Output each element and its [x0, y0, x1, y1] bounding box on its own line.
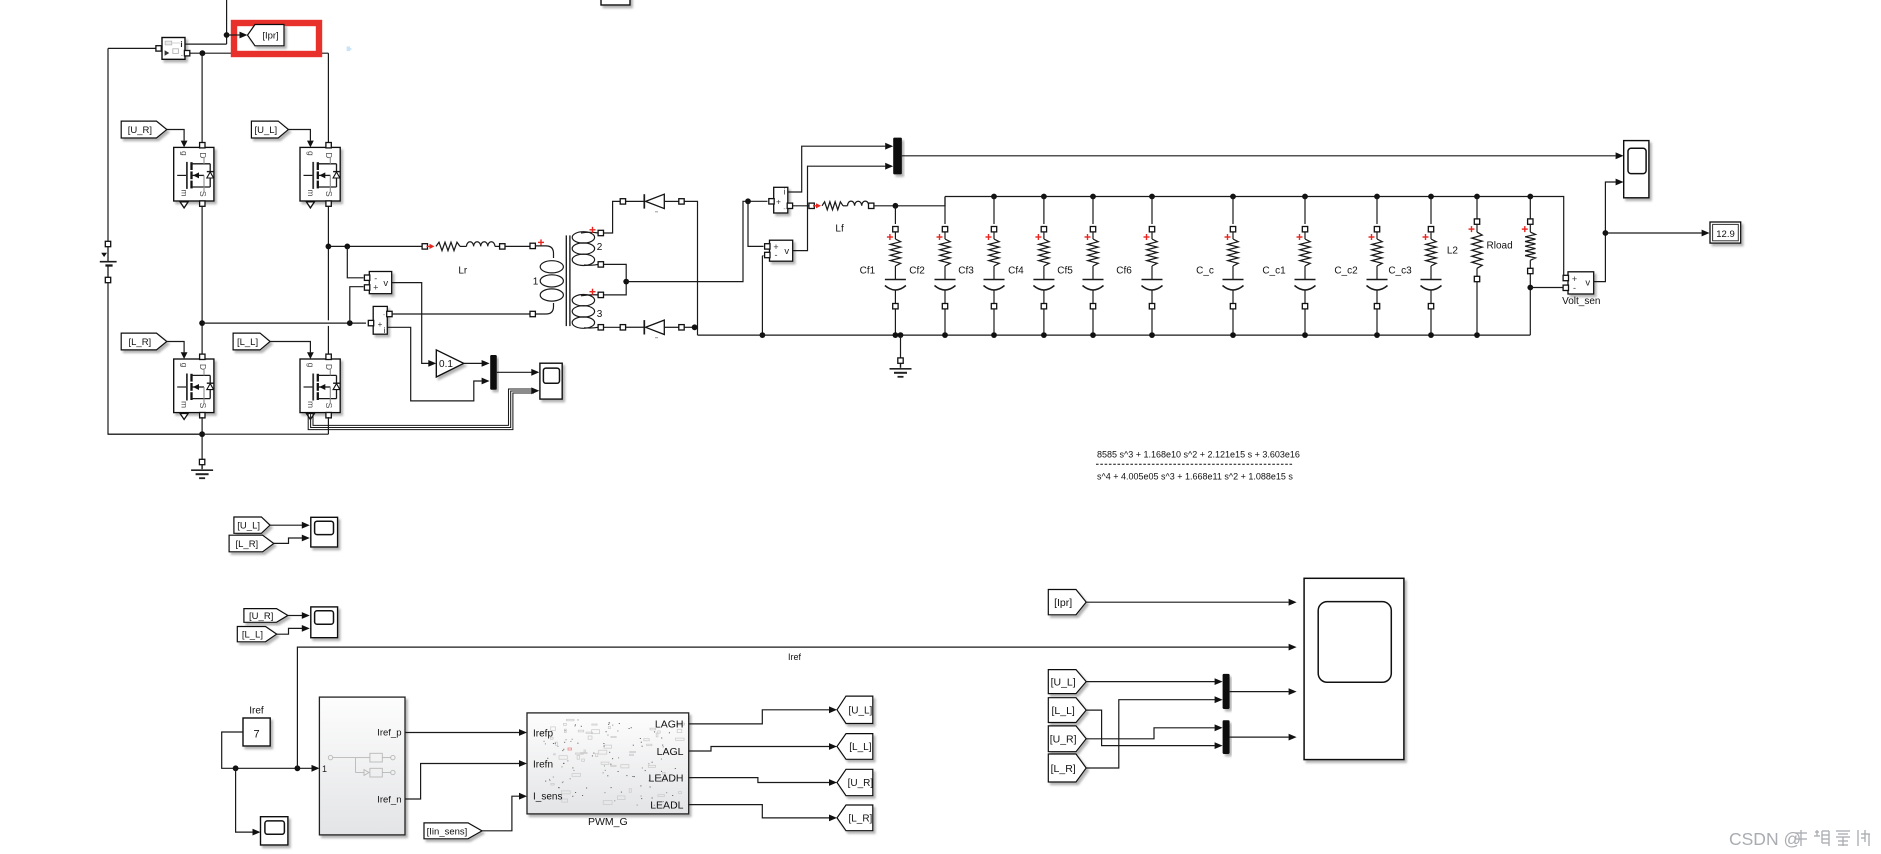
MOSFET U_L — [300, 141, 340, 208]
wire Cf4 to bus — [1043, 309, 1045, 335]
wire LAGH — [689, 710, 830, 724]
wire L_R to scope — [274, 538, 302, 543]
svg-text:m: m — [306, 401, 316, 408]
inductor branch L2 — [1474, 219, 1479, 224]
capacitor branch Cf3 — [991, 227, 996, 232]
svg-text:v: v — [1585, 278, 1590, 289]
svg-text:g: g — [306, 363, 316, 368]
wire right leg upper (to U_L drain) — [327, 53, 329, 142]
svg-text:LAGH: LAGH — [655, 719, 684, 731]
wire LAGL — [689, 747, 830, 752]
wire into goto Ipr — [227, 34, 240, 36]
mux (bridge scope) — [490, 355, 497, 390]
wire L_L to mux2 — [1086, 710, 1215, 746]
capacitor branch C_c — [1230, 227, 1235, 232]
svg-text:0.1: 0.1 — [439, 359, 453, 370]
from tag [U_R] (scope pair 2) — [244, 609, 288, 623]
diode D2 — [620, 325, 625, 330]
junction Ipr node — [224, 32, 230, 38]
wire v signal to mux — [793, 166, 886, 250]
svg-text:v: v — [784, 246, 789, 257]
junction bottom bus C_c — [1230, 332, 1236, 338]
from tag [Ipr] (scope) — [1048, 590, 1086, 615]
junction Iref riser — [295, 765, 301, 771]
svg-text:S: S — [198, 403, 208, 409]
wire battery plus up to sensor — [107, 48, 109, 241]
capacitor branch Cf6 — [1149, 227, 1154, 232]
from tag [U_L] (scope pair 1) — [234, 517, 270, 533]
transformer primary port top — [530, 243, 535, 248]
svg-text:[L_R]: [L_R] — [1051, 763, 1076, 775]
svg-text:C_c1: C_c1 — [1262, 266, 1286, 277]
from tag [L_R] (scope) — [1048, 754, 1086, 782]
winding 3 ports — [598, 292, 603, 297]
wire mux out to scope — [497, 371, 532, 373]
wire Iref long line — [297, 647, 1288, 768]
from tag [L_L] (scope pair 2) — [237, 627, 276, 642]
wire riser Cf4 — [1043, 197, 1045, 225]
svg-text:[L_L]: [L_L] — [242, 630, 263, 641]
wire D1 out to common — [684, 201, 697, 335]
junction center tap split — [745, 198, 751, 204]
junction mid line v tap — [347, 320, 353, 326]
wire lower left leg to bus — [201, 417, 203, 434]
svg-text:[Iin_sens]: [Iin_sens] — [427, 826, 468, 837]
from tag [L_R] — [121, 333, 167, 350]
wire right leg middle upper — [327, 207, 329, 321]
wire riser Cf2 — [944, 197, 946, 225]
wire riser Rload — [1529, 197, 1531, 220]
wire LEADH — [689, 778, 830, 783]
wire i out to mux — [387, 327, 482, 401]
scope (gate pair 1) — [311, 517, 338, 547]
wire U_L to mux1 — [1086, 681, 1215, 683]
wire to display — [1605, 232, 1701, 234]
svg-text:Cf5: Cf5 — [1057, 266, 1073, 277]
svg-text:i: i — [180, 40, 182, 49]
wire lower right leg to bus — [327, 417, 329, 434]
svg-text:[L_R]: [L_R] — [128, 337, 151, 348]
wire right leg middle lower — [327, 326, 329, 354]
wire winding3 to diode D2 — [604, 326, 621, 328]
wire Cf5 to bus — [1092, 309, 1094, 335]
svg-text:2: 2 — [597, 242, 603, 253]
wire i- to transformer primary — [392, 313, 530, 315]
svg-text:+: + — [378, 320, 383, 329]
wire riser C_c2 — [1376, 197, 1378, 225]
transformer primary port bottom — [530, 311, 535, 316]
wire mid node line to sensors — [202, 322, 366, 324]
capacitor branch C_c3 — [1428, 227, 1433, 232]
from tag [L_L] — [233, 333, 270, 350]
wire L_L gate — [270, 342, 310, 353]
wire riser C_c3 — [1430, 197, 1432, 225]
wire bottom bus — [698, 334, 1531, 336]
wire Lr node line — [328, 245, 424, 247]
wire riser L2 — [1476, 197, 1478, 220]
svg-text:Cf3: Cf3 — [958, 266, 974, 277]
svg-text:LAGL: LAGL — [657, 746, 684, 758]
svg-text:g: g — [306, 151, 316, 156]
wire to bottom scope — [236, 768, 253, 832]
voltage measurement (secondary) — [770, 240, 793, 261]
wire Cf1 riser — [894, 206, 896, 224]
ground of bridge — [201, 436, 203, 459]
current measurement block (primary) — [373, 306, 387, 334]
diode D1 — [620, 199, 625, 204]
wire left leg upper (to U_R drain) — [201, 53, 203, 142]
transformer secondary winding 3 — [572, 295, 594, 306]
wire i signal to mux — [788, 146, 886, 192]
subsystem PWM_G — [527, 713, 689, 814]
svg-text:[Ipr]: [Ipr] — [262, 31, 278, 42]
wire Cf2 to bus — [944, 309, 946, 335]
junction bottom bus Cf3 — [991, 332, 997, 338]
wire C_c3 to bus — [1430, 309, 1432, 335]
svg-text:m: m — [180, 401, 190, 408]
junction top bus Cf4 — [1041, 194, 1047, 200]
measurement cable 3-line bundle — [313, 389, 534, 425]
junction top bus C_c3 — [1428, 194, 1434, 200]
svg-text:Iref: Iref — [788, 652, 802, 662]
svg-text:i: i — [384, 326, 386, 335]
transfer function divider — [1096, 463, 1293, 465]
from tag [U_R] (scope) — [1048, 726, 1086, 752]
svg-text:g: g — [180, 363, 190, 368]
capacitor branch Cf2 — [942, 227, 947, 232]
junction bottom bus Cf4 — [1041, 332, 1047, 338]
constant 7 — [243, 718, 270, 746]
wire riser Cf6 — [1151, 197, 1153, 225]
svg-text:S: S — [324, 403, 334, 409]
svg-text:D: D — [324, 152, 334, 158]
scope (Iref) — [261, 817, 288, 845]
wire riser Cf5 — [1092, 197, 1094, 225]
wire v minus to bottom bus — [762, 255, 763, 257]
MOSFET L_R — [174, 352, 214, 419]
junction bottom bus Cf5 — [1090, 332, 1096, 338]
DC voltage source battery — [105, 241, 110, 246]
wire gain out to mux — [464, 362, 482, 364]
svg-text:Cf4: Cf4 — [1008, 266, 1024, 277]
junction v minus tap — [344, 244, 350, 250]
svg-text:[L_L]: [L_L] — [237, 337, 258, 348]
svg-text:L2: L2 — [1447, 246, 1459, 257]
svg-text:C_c2: C_c2 — [1334, 266, 1358, 277]
svg-text:[Ipr]: [Ipr] — [1054, 597, 1072, 609]
wire Iin_sens to PWM — [482, 796, 519, 831]
junction top bus Rload — [1527, 194, 1533, 200]
wire D2 out — [684, 326, 697, 328]
svg-text:[U_R]: [U_R] — [249, 611, 273, 622]
scope (main waveforms) — [1304, 578, 1404, 759]
mux (output scope top) — [893, 138, 902, 175]
junction top bus Cf5 — [1090, 194, 1096, 200]
junction bottom bus L2 — [1474, 332, 1480, 338]
svg-text:+: + — [373, 283, 378, 293]
wire riser C_c — [1232, 197, 1234, 225]
svg-text:s^4 + 4.005e05 s^3 + 1.668e11: s^4 + 4.005e05 s^3 + 1.668e11 s^2 + 1.08… — [1097, 472, 1293, 482]
resistor Rload — [1528, 219, 1533, 224]
wire i sensor to Lf — [793, 205, 809, 207]
svg-text:[U_R]: [U_R] — [848, 778, 874, 789]
wire L_L to scope2 — [277, 628, 302, 634]
junction top rail / left leg — [200, 50, 206, 56]
wire constant out — [222, 732, 312, 768]
svg-text:D: D — [324, 364, 334, 370]
svg-text:[L_L]: [L_L] — [1051, 705, 1074, 717]
wire Lr to transformer — [505, 245, 530, 247]
svg-text:D: D — [198, 152, 208, 158]
junction bottom bus left — [199, 431, 205, 437]
scope (gate pair 2) — [311, 607, 338, 638]
subsystem Iref generator — [319, 697, 405, 835]
inductor Lf — [809, 203, 814, 208]
svg-text:[U_L]: [U_L] — [254, 125, 277, 136]
svg-text:m: m — [306, 189, 316, 196]
wire Volt_sen out — [1594, 182, 1616, 282]
svg-text:I_sens: I_sens — [533, 792, 562, 803]
svg-text:1: 1 — [533, 277, 539, 288]
cut-off block at top edge — [601, 0, 630, 5]
junction bottom bus C_c2 — [1374, 332, 1380, 338]
svg-text:g: g — [180, 151, 190, 156]
transformer secondary winding 2 — [572, 232, 594, 243]
svg-text:[U_L]: [U_L] — [848, 705, 872, 716]
wire U_R to mux2 — [1086, 728, 1215, 739]
wire C_c2 to bus — [1376, 309, 1378, 335]
svg-text:Rload: Rload — [1487, 241, 1513, 252]
mux 1 (gates U_L L_R) — [1223, 674, 1230, 709]
wire riser C_c1 — [1304, 197, 1306, 225]
wire Rload bottom — [1529, 274, 1531, 335]
junction top bus C_c — [1230, 194, 1236, 200]
wire Lf out — [874, 197, 945, 206]
svg-text:[U_R]: [U_R] — [128, 125, 152, 136]
goto tag [U_L] (PWM) — [837, 696, 873, 723]
wire L2 to bus — [1476, 282, 1478, 335]
junction Rload volt tap — [1527, 285, 1533, 291]
wire Ipr to big scope — [1086, 601, 1289, 603]
wire U_L to scope — [270, 524, 302, 526]
inductor-resistor Lr — [422, 244, 427, 249]
gain 0.1 — [436, 350, 464, 377]
wire Iref_p to PWM — [405, 732, 519, 734]
wire v out to gain — [392, 283, 429, 364]
junction center tap — [623, 279, 629, 285]
svg-text:Volt_sen: Volt_sen — [1562, 296, 1600, 307]
svg-text:-: - — [1573, 283, 1576, 293]
svg-text:Lf: Lf — [835, 224, 844, 235]
wire Cf6 to bus — [1151, 309, 1153, 335]
from tag [Iin_sens] — [424, 823, 482, 839]
wire Cf3 to bus — [993, 309, 995, 335]
display 12.9 — [1710, 222, 1741, 243]
svg-text:Irefp: Irefp — [533, 728, 553, 739]
wire bus to Volt_sen plus — [1530, 197, 1565, 279]
capacitor branch C_c1 — [1302, 227, 1307, 232]
junction display tap — [1603, 230, 1609, 236]
wire Iref_n to PWM — [405, 764, 519, 800]
wire mux to scope top right — [902, 155, 1616, 157]
svg-text:3: 3 — [597, 309, 603, 320]
voltage measurement block (primary) — [369, 272, 391, 294]
svg-text:[L_R]: [L_R] — [848, 813, 872, 824]
junction top bus C_c1 — [1302, 194, 1308, 200]
current measurement sensor Ipr — [162, 38, 185, 60]
wire Rload to Volt_sen minus — [1530, 287, 1565, 289]
junction bottom bus Cf6 — [1149, 332, 1155, 338]
wire battery minus down to bottom bus — [108, 283, 200, 435]
wire winding2 to diode D1 — [604, 201, 621, 233]
wire U_R to scope2 — [288, 615, 302, 617]
goto tag [L_L] (PWM) — [837, 734, 873, 760]
capacitor branch Cf5 — [1090, 227, 1095, 232]
wire U_R gate — [167, 130, 184, 141]
capacitor branch Cf4 — [1041, 227, 1046, 232]
svg-text:+: + — [776, 197, 781, 207]
voltage sensor Volt_sen — [1568, 272, 1594, 294]
wire v plus — [350, 287, 364, 323]
junction bottom bus Cf1 — [893, 332, 899, 338]
wire C_c1 to bus — [1304, 309, 1306, 335]
winding 2 ports — [598, 230, 603, 235]
svg-text:Lr: Lr — [458, 266, 468, 277]
svg-text:m: m — [180, 189, 190, 196]
transformer primary winding 1 — [535, 246, 553, 258]
capacitor branch Cf1 — [893, 227, 898, 232]
svg-text:PWM_G: PWM_G — [588, 816, 628, 828]
junction bottom bus C_c1 — [1302, 332, 1308, 338]
junction scope branch — [233, 765, 239, 771]
goto tag [U_R] (PWM) — [837, 769, 873, 795]
svg-text:Iref: Iref — [249, 706, 264, 717]
wire bottom bus left section — [108, 433, 328, 435]
junction diode common — [692, 324, 698, 330]
MOSFET L_L — [300, 352, 340, 419]
svg-text:C_c: C_c — [1196, 266, 1214, 277]
wire vertical to top edge — [226, 0, 228, 44]
svg-text:Iref_n: Iref_n — [377, 794, 401, 805]
svg-text:[L_R]: [L_R] — [235, 539, 258, 550]
junction top bus C_c2 — [1374, 194, 1380, 200]
wire U_L gate — [288, 130, 310, 141]
from tag [U_R] — [121, 121, 167, 138]
svg-text:v: v — [383, 278, 388, 289]
wire LEADL — [689, 805, 830, 818]
scope (output voltage) — [1624, 141, 1649, 198]
from tag [L_R] (scope pair 1) — [229, 535, 274, 552]
junction bottom bus C_c3 — [1428, 332, 1434, 338]
wire mux1 to scope — [1230, 691, 1289, 693]
svg-text:LEADH: LEADH — [648, 772, 683, 784]
blue artifact mark — [347, 47, 350, 52]
svg-text:LEADL: LEADL — [650, 799, 683, 811]
from tag [U_L] — [251, 121, 288, 138]
scope (bridge) — [540, 363, 562, 399]
arrow bundle into scope — [531, 387, 539, 394]
svg-text:[U_L]: [U_L] — [237, 521, 260, 532]
current measurement (secondary) — [774, 187, 788, 213]
svg-text:-: - — [775, 250, 778, 260]
wire mux2 to scope — [1230, 736, 1289, 738]
wire center tap to i sensor — [626, 201, 767, 281]
junction v minus bus — [760, 332, 766, 338]
svg-text:[U_L]: [U_L] — [1051, 676, 1076, 688]
svg-text:12.9: 12.9 — [1716, 229, 1735, 240]
wire to v plus secondary — [748, 201, 764, 246]
red highlight annotation box — [234, 23, 319, 54]
junction Cf1 tap — [893, 203, 899, 209]
goto tag [Ipr] — [248, 25, 285, 46]
junction right leg at Lr line — [326, 244, 332, 250]
junction left leg mid node — [199, 320, 205, 326]
svg-text:Cf6: Cf6 — [1116, 266, 1132, 277]
wire C_c to bus — [1232, 309, 1234, 335]
svg-text:Irefn: Irefn — [533, 759, 553, 770]
svg-text:Cf1: Cf1 — [860, 266, 876, 277]
goto tag [L_R] (PWM) — [837, 805, 873, 831]
wire top bus — [945, 196, 1530, 198]
svg-text:1: 1 — [322, 764, 327, 774]
from tag [U_L] (scope) — [1048, 670, 1086, 694]
wire winding2 bottom to center tap — [604, 264, 627, 295]
wire left leg middle — [201, 207, 203, 354]
ground of filter — [898, 332, 904, 338]
svg-text:S: S — [198, 191, 208, 197]
svg-text:C_c3: C_c3 — [1388, 266, 1412, 277]
svg-text:[L_L]: [L_L] — [849, 742, 871, 753]
svg-text:CSDN @: CSDN @ — [1729, 829, 1801, 849]
svg-text:S: S — [324, 191, 334, 197]
svg-text:7: 7 — [254, 729, 260, 741]
wire L_R to mux1 — [1086, 700, 1215, 768]
MOSFET U_R — [174, 141, 214, 208]
svg-text:i: i — [784, 188, 786, 197]
svg-text:Cf2: Cf2 — [909, 266, 925, 277]
junction top bus L2 — [1474, 194, 1480, 200]
svg-text:Iref_p: Iref_p — [377, 727, 401, 738]
svg-text:8585 s^3 + 1.168e10 s^2 + 2.12: 8585 s^3 + 1.168e10 s^2 + 2.121e15 s + 3… — [1097, 450, 1300, 460]
mux 2 (gates U_R L_L) — [1223, 720, 1230, 754]
wire sensor out to right leg — [186, 52, 188, 54]
svg-text:D: D — [198, 364, 208, 370]
from tag [L_L] (scope) — [1048, 698, 1086, 723]
junction top bus Cf3 — [991, 194, 997, 200]
wire v minus — [347, 246, 363, 277]
transformer core — [565, 235, 567, 326]
junction top bus Cf6 — [1149, 194, 1155, 200]
wire top rail from sensor to right leg — [190, 52, 329, 54]
wire L_R gate — [167, 342, 184, 353]
wire i signal to Ipr node — [185, 43, 227, 45]
wire riser Cf3 — [993, 197, 995, 225]
wire Cf1 to bus — [894, 309, 896, 335]
junction bottom bus Cf2 — [942, 332, 948, 338]
svg-text:[U_R]: [U_R] — [1050, 734, 1077, 746]
capacitor branch C_c2 — [1374, 227, 1379, 232]
